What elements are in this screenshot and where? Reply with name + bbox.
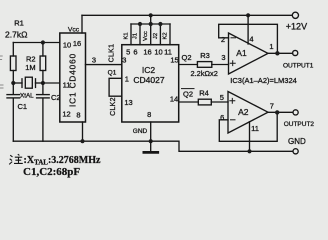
svg-text:IC3(A1–A2)=LM324: IC3(A1–A2)=LM324 (230, 76, 296, 85)
svg-text:2: 2 (221, 35, 225, 44)
node A crystal left (11, 81, 15, 85)
terminal GND (293, 149, 298, 154)
terminal OUTPUT1 (293, 50, 298, 55)
terminal OUTPUT2 (293, 110, 298, 115)
node Vcc-IC2 junction (149, 13, 153, 17)
svg-text:C2: C2 (51, 93, 61, 102)
node IC1 pin8 ground (80, 139, 84, 143)
svg-text:3: 3 (122, 56, 126, 65)
wire CLK1 IC1 pin3 to IC2 pin3 (86, 64, 122, 66)
node B crystal right (41, 81, 45, 85)
svg-text:R4: R4 (199, 89, 209, 98)
svg-text:16: 16 (143, 48, 151, 57)
node IC2 pin8 ground (149, 139, 153, 143)
label Q2bar overline (182, 88, 195, 90)
svg-text:C1,C2:68pF: C1,C2:68pF (23, 166, 80, 178)
svg-text:1: 1 (125, 75, 129, 84)
svg-text:K1: K1 (124, 32, 130, 39)
IC U1 CD4060 body (60, 33, 86, 122)
wire Q2bar pin14 (179, 101, 199, 103)
svg-text:Q2: Q2 (183, 90, 193, 99)
svg-text:OUTPUT1: OUTPUT1 (283, 63, 314, 70)
svg-text:CLK2: CLK2 (110, 97, 117, 116)
svg-text:CLK1: CLK1 (108, 44, 115, 63)
resistor R3 (197, 62, 211, 68)
svg-text:R2: R2 (26, 54, 36, 63)
op-amp A2 plus marker (230, 98, 235, 103)
wire A1 output (268, 52, 293, 54)
svg-text:R3: R3 (200, 51, 210, 60)
svg-text:13: 13 (124, 98, 132, 107)
svg-text:GND: GND (133, 128, 148, 135)
svg-text:+12V: +12V (286, 22, 307, 32)
wire A2 pin11 stub (249, 122, 251, 152)
svg-text:Q2: Q2 (181, 53, 191, 62)
wire IC2 pin8 stub (150, 122, 152, 141)
op-amp A1 plus marker (230, 61, 235, 66)
node J1 junction (138, 22, 142, 26)
svg-text:IC2: IC2 (142, 65, 156, 75)
svg-text:A2: A2 (238, 107, 249, 117)
svg-text:16: 16 (73, 39, 81, 48)
svg-text:2.2kΩx2: 2.2kΩx2 (191, 69, 218, 78)
IC U2 CD4027 body (122, 45, 179, 122)
wire IC1 pin8 stub (82, 122, 84, 141)
wire ground rail (13, 141, 293, 151)
svg-text:5: 5 (220, 93, 224, 102)
wire Vcc top rail (82, 14, 292, 16)
svg-text:Q1: Q1 (108, 70, 117, 77)
wire IC1 pin11 (43, 82, 60, 84)
wire IC2 Vcc to rail (150, 15, 152, 24)
svg-text:IC1 CD4060: IC1 CD4060 (69, 53, 78, 107)
svg-text:1: 1 (269, 42, 273, 51)
svg-text:6: 6 (133, 48, 137, 57)
svg-text:OUTPUT2: OUTPUT2 (284, 121, 315, 128)
terminal +12V (292, 12, 298, 18)
crystal XTAL (13, 82, 22, 84)
wire Q2 pin15 (179, 64, 198, 66)
wire Q1 to CLK2 loop (109, 78, 122, 96)
svg-text:Vcc: Vcc (143, 31, 149, 41)
svg-text:14: 14 (170, 95, 178, 104)
op-amp A2 (228, 92, 268, 134)
wire J1 stub pin6 (139, 24, 141, 45)
wire A2 output (268, 111, 293, 113)
svg-text:12: 12 (62, 110, 70, 119)
svg-text:Vcc: Vcc (68, 27, 80, 34)
svg-text:GND: GND (288, 137, 306, 146)
svg-text:10: 10 (63, 41, 71, 50)
svg-text:10: 10 (154, 48, 162, 57)
op-amp A1 minus marker (231, 37, 236, 39)
capacitor C1 (12, 83, 14, 94)
wire IC2 top pin connector (131, 23, 170, 25)
resistor R2 (42, 43, 44, 57)
note line 1 zhu character (9, 154, 23, 164)
wire A2 feedback out to pin6 (219, 112, 277, 141)
wire K1 stub pin5 (130, 24, 132, 45)
svg-text:4: 4 (249, 35, 253, 44)
svg-text:J2: J2 (153, 33, 159, 39)
wire IC1 pin10 (13, 42, 60, 44)
wire J2 stub pin10 (159, 24, 161, 45)
scan artifact marks left edge (0, 56, 3, 88)
node J2 junction (158, 22, 162, 26)
op-amp A2 minus marker (231, 119, 236, 121)
node A2 output (275, 110, 279, 114)
wire K2 stub pin11 (169, 24, 171, 45)
svg-text:J1: J1 (133, 33, 139, 39)
svg-text:3: 3 (92, 56, 96, 65)
svg-text:A1: A1 (236, 48, 247, 58)
wire IC1 Vcc stub pin16 (81, 15, 83, 33)
svg-text:K2: K2 (163, 32, 169, 39)
resistor R4 (198, 99, 211, 105)
svg-text:8: 8 (76, 111, 80, 120)
wire Vcc stub pin16 (150, 24, 152, 45)
node top of R2 (41, 40, 45, 44)
ground symbol (150, 141, 152, 151)
svg-text:6: 6 (220, 113, 224, 122)
svg-text:3: 3 (221, 53, 225, 62)
resistor R1 (12, 43, 14, 57)
node A2 pin11 ground (247, 149, 251, 153)
svg-text:XtAL: XtAL (20, 93, 34, 100)
svg-text:R1: R1 (14, 19, 24, 28)
svg-text:1M: 1M (25, 63, 35, 72)
svg-text:8: 8 (147, 110, 151, 119)
wire A1 feedback out to pin2 (219, 24, 278, 53)
node A1 output (275, 51, 279, 55)
node Vcc-A1 junction (246, 13, 250, 17)
svg-text:5: 5 (126, 48, 130, 57)
node Vcc junction (149, 22, 153, 26)
svg-text:11: 11 (251, 124, 259, 133)
svg-text:15: 15 (170, 55, 178, 64)
wire A1 pin4 stub (247, 15, 249, 44)
svg-text:7: 7 (270, 102, 274, 111)
op-amp A1 (229, 33, 269, 74)
svg-text:C1: C1 (18, 102, 28, 111)
svg-text:CD4027: CD4027 (133, 75, 164, 85)
svg-text:2.7kΩ: 2.7kΩ (5, 29, 27, 39)
capacitor C2 (42, 83, 44, 94)
